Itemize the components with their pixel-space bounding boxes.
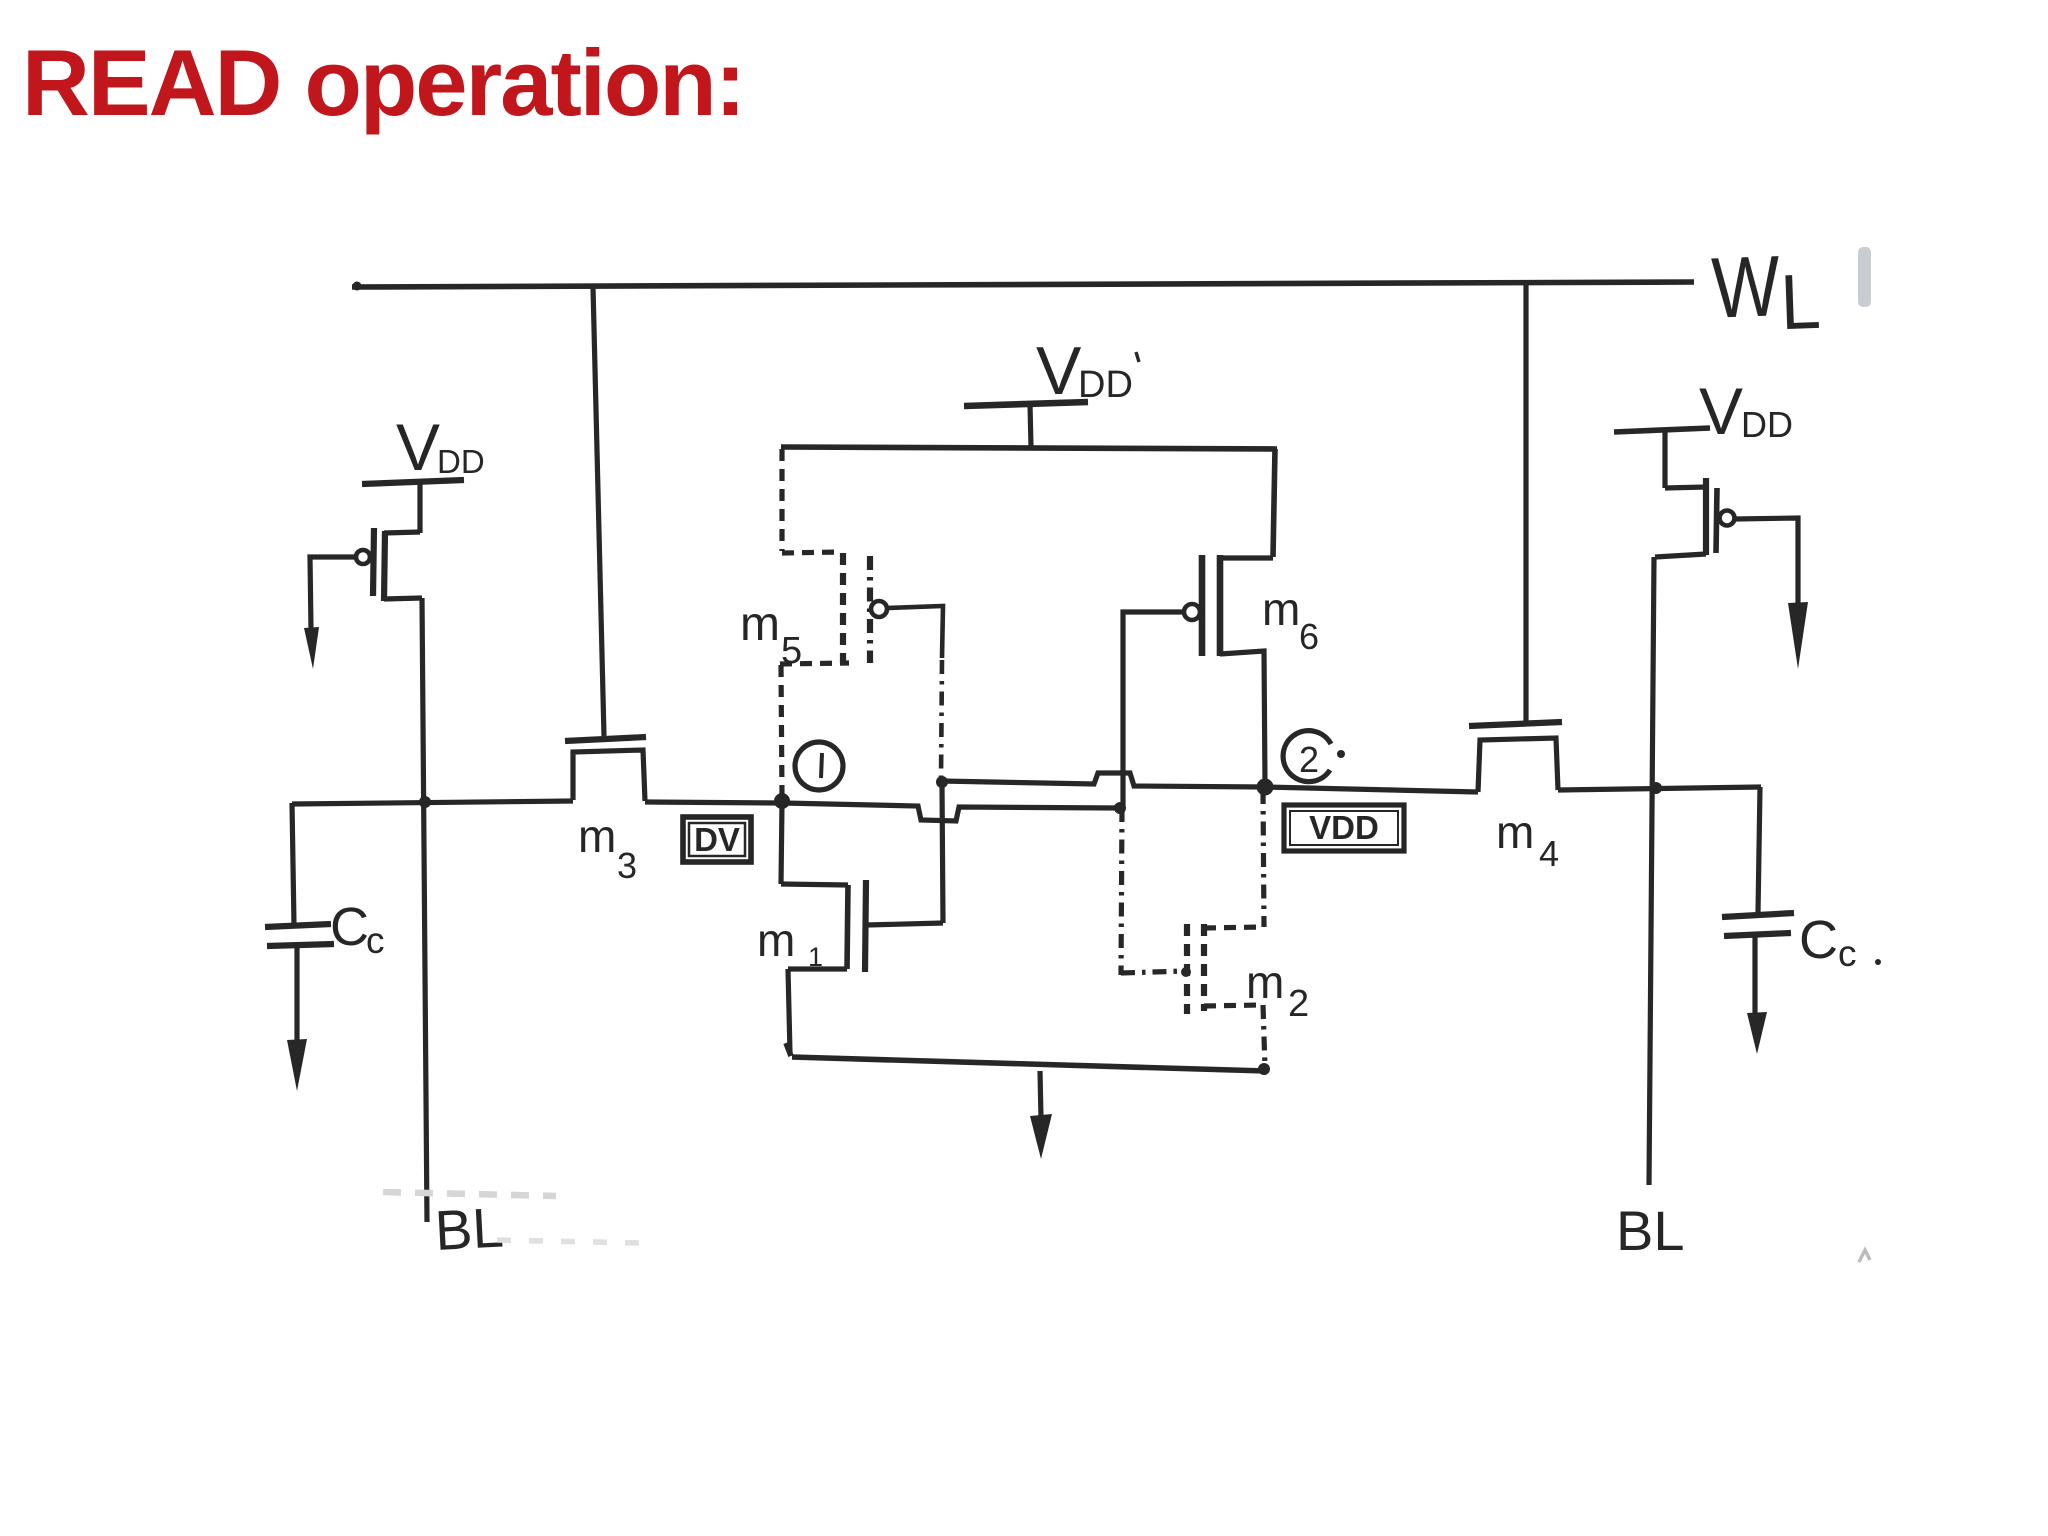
junction node 1 bbox=[774, 793, 790, 809]
svg-text:VDD: VDD bbox=[1309, 809, 1379, 846]
power VDD right precharge bbox=[1699, 374, 1793, 448]
svg-text:6: 6 bbox=[1299, 616, 1319, 657]
svg-text:C: C bbox=[330, 897, 369, 957]
svg-text:c: c bbox=[1838, 933, 1857, 974]
wire M1 gate riser bbox=[942, 784, 943, 923]
transistor M3 (NMOS access) bbox=[565, 737, 646, 801]
svg-text:V: V bbox=[396, 410, 440, 484]
transistor M6 label m6 bbox=[1262, 583, 1319, 657]
svg-text:READ operation:: READ operation: bbox=[22, 30, 744, 135]
wire node2 to M5/M1 gates (upper cross wire with hop) bbox=[941, 773, 1264, 787]
svg-text:m: m bbox=[1496, 806, 1534, 858]
wire M5 gate down to node wire bbox=[888, 606, 943, 658]
transistor M4 label m4 bbox=[1496, 806, 1559, 874]
transistor M1 label m1 bbox=[757, 914, 823, 972]
wire node1 to M6/M2 gates (lower cross wire with dip) bbox=[783, 803, 1119, 821]
node VDD box label bbox=[1284, 805, 1404, 851]
node WL left end blob bbox=[353, 282, 362, 291]
decorative faint smudges near left BL bbox=[383, 1192, 556, 1196]
transistor left precharge PMOS bbox=[356, 482, 422, 601]
transistor M5 gate bubble bbox=[871, 601, 887, 617]
capacitor C1 arrow to ground bbox=[287, 1039, 307, 1091]
svg-text:W: W bbox=[1710, 238, 1781, 336]
wire left precharge gate with arrow bbox=[310, 557, 356, 630]
capacitor C1 (left Cc) bbox=[265, 803, 334, 1043]
svg-text:DV: DV bbox=[694, 821, 740, 858]
ground arrow bbox=[1040, 1071, 1041, 1118]
svg-text:4: 4 bbox=[1539, 833, 1559, 874]
svg-text:DD: DD bbox=[437, 443, 485, 480]
svg-text:1: 1 bbox=[808, 942, 823, 972]
power VDD center bbox=[1036, 333, 1133, 409]
svg-text:m: m bbox=[1246, 956, 1284, 1008]
svg-text:2: 2 bbox=[1288, 983, 1309, 1025]
svg-text:3: 3 bbox=[617, 845, 637, 886]
node BL label left bbox=[433, 1195, 505, 1261]
svg-text:BL: BL bbox=[1616, 1199, 1685, 1262]
wire WL word line bbox=[352, 282, 1694, 287]
wire right BL vertical bbox=[1649, 557, 1654, 1185]
node WL label bbox=[1710, 237, 1822, 349]
decorative gray streak near WL bbox=[1858, 247, 1871, 307]
junction M2 gate tee bbox=[1181, 967, 1191, 977]
svg-text:m: m bbox=[740, 598, 780, 651]
transistor M2 (dashed NMOS) bbox=[1121, 790, 1265, 1068]
transistor M4 (NMOS access) bbox=[1469, 722, 1562, 792]
svg-text:c: c bbox=[366, 920, 385, 961]
junction left bitline bbox=[419, 796, 431, 808]
transistor M3 label m3 bbox=[578, 810, 637, 886]
junction upper wire at M1 gate bbox=[936, 776, 948, 788]
transistor M2 label m2 bbox=[1246, 956, 1309, 1025]
svg-text:5: 5 bbox=[781, 630, 802, 672]
svg-text:m: m bbox=[578, 810, 616, 862]
junction lower wire at M6 gate bbox=[1114, 802, 1126, 814]
svg-text:BL: BL bbox=[433, 1195, 505, 1261]
capacitor C2 label Cc bbox=[1799, 910, 1881, 974]
transistor M6 gate bubble bbox=[1184, 604, 1200, 620]
node 1 circle bbox=[795, 742, 843, 790]
junction right bitline bbox=[1650, 782, 1662, 794]
junction node 2 bbox=[1257, 779, 1274, 796]
decorative faint mark bottom right bbox=[1859, 1250, 1870, 1262]
svg-text:m: m bbox=[1262, 583, 1300, 635]
transistor M5 label m5 bbox=[740, 598, 802, 672]
svg-text:L: L bbox=[1779, 257, 1822, 346]
node 2 circle bbox=[1283, 731, 1331, 782]
wire left bitline horizontal bbox=[292, 801, 780, 804]
transistor M6 (PMOS) bbox=[1202, 449, 1275, 785]
wire node2 to M4 bbox=[1266, 787, 1478, 792]
transistor M5 (dashed PMOS) bbox=[780, 449, 870, 797]
capacitor C2 (right Cc) bbox=[1722, 787, 1794, 1016]
capacitor C2 arrow to ground bbox=[1747, 1012, 1767, 1054]
transistor right precharge PMOS bbox=[1655, 430, 1735, 557]
wire WL drop to M4 gate bbox=[1523, 283, 1528, 723]
wire left BL vertical bbox=[422, 598, 427, 1222]
svg-text:2: 2 bbox=[1299, 739, 1319, 780]
node DV box label bbox=[683, 817, 751, 862]
svg-text:m: m bbox=[757, 914, 795, 966]
wire M4 to right bitline bbox=[1558, 787, 1761, 790]
transistor M1 (NMOS) bbox=[781, 803, 943, 1053]
wire VDD rail bbox=[781, 447, 1277, 449]
ground rail under inverters bbox=[786, 1043, 791, 1056]
svg-text:V: V bbox=[1699, 374, 1743, 448]
wire WL drop to M3 gate bbox=[593, 287, 604, 736]
wire M6 gate drop bbox=[1123, 612, 1184, 806]
capacitor C1 label Cc bbox=[330, 897, 385, 961]
junction ground rail right end bbox=[1258, 1063, 1270, 1075]
svg-text:DD: DD bbox=[1741, 404, 1793, 445]
svg-text:C: C bbox=[1799, 910, 1838, 970]
wire right precharge gate with arrow bbox=[1735, 518, 1798, 604]
svg-text:V: V bbox=[1036, 333, 1082, 409]
power VDD left precharge bbox=[396, 410, 485, 484]
